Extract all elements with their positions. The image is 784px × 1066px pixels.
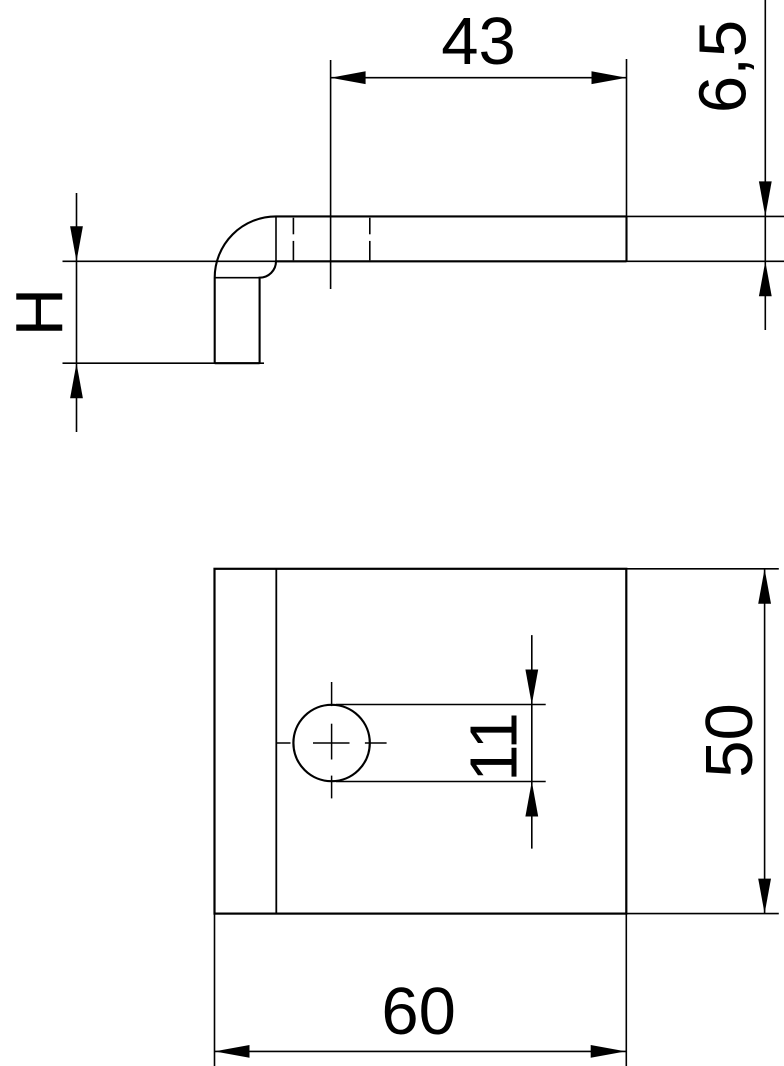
svg-text:H: H [3, 288, 78, 336]
arm bottom edge + inner bend + leg inner edge [260, 261, 627, 363]
centerline vertical of hole [331, 682, 333, 706]
hole circle [293, 705, 369, 781]
svg-text:60: 60 [381, 974, 456, 1049]
extension line: rect left edge extended down (for 60) [214, 914, 216, 1066]
arrowheads for 11 [215, 569, 772, 1058]
hidden hole edge left (dashed) [292, 218, 294, 235]
arrowheads for 60 [215, 1045, 250, 1058]
extension line / hole axis: left extension of 43 [330, 60, 332, 289]
bend tangent line vertical [275, 216, 277, 261]
extension line: rect top edge extended right (for 50) [626, 568, 779, 570]
extension line: top edge of arm extended right (for 6,5) [627, 215, 784, 217]
svg-text:11: 11 [457, 712, 532, 782]
bend tangent line in plan view [275, 569, 277, 914]
dimension line 50 [764, 569, 766, 914]
svg-text:6,5: 6,5 [686, 20, 761, 113]
dimension line 60 [215, 1050, 626, 1052]
bottom view rectangle outline [215, 569, 627, 914]
centerline horizontal of hole [276, 682, 387, 798]
arrowheads for 43 [70, 71, 772, 398]
extension line: rect bottom edge extended right (for 50) [626, 913, 779, 915]
svg-text:50: 50 [692, 703, 767, 778]
dimension line H [76, 193, 78, 432]
extension line: right extension of 43 [626, 59, 628, 216]
arm top edge + outer bend + leg outer edge [215, 216, 627, 363]
hidden hole edge right (dashed) [369, 218, 371, 235]
dimension line 43 [331, 77, 627, 79]
arrowheads for 6,5 [759, 181, 772, 216]
extension line: hole top tangent (for 11) [336, 704, 546, 706]
extension line: rect right edge extended down (for 60) [625, 914, 627, 1066]
extension line: bottom edge of arm extended both sides (for H and 6,5) [63, 260, 784, 262]
arrowheads for 50 [758, 569, 771, 604]
extension line: bottom of leg extended left (for H) [63, 362, 265, 364]
side view part outline [215, 216, 627, 363]
arm right end edge [625, 216, 627, 261]
svg-text:43: 43 [441, 4, 516, 79]
dimension line 11 [531, 635, 533, 849]
leg bottom edge [215, 362, 260, 364]
bend tangent line horizontal [215, 277, 260, 279]
extension line: hole bottom tangent (for 11) [336, 781, 546, 783]
dimension line 6,5 [764, 0, 766, 330]
arrowheads for H [70, 226, 83, 261]
